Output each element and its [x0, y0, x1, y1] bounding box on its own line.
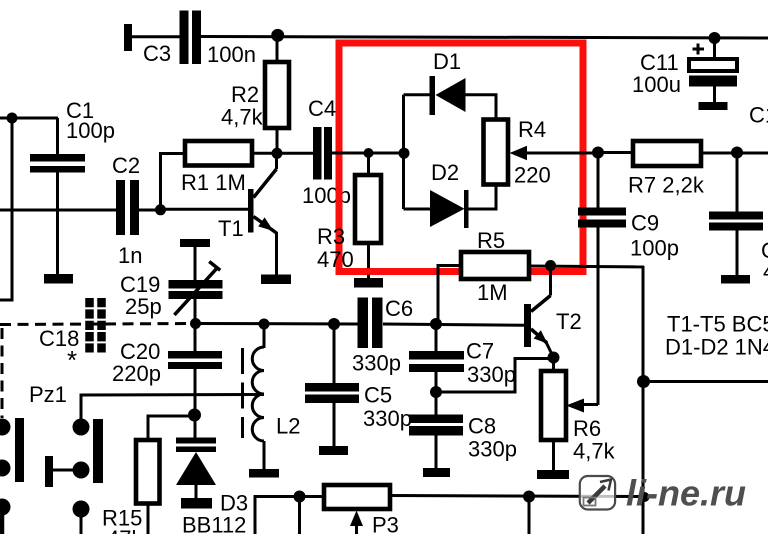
svg-text:li-ne.ru: li-ne.ru: [626, 473, 746, 514]
svg-text:T1: T1: [218, 216, 244, 241]
svg-text:C12: C12: [749, 103, 768, 128]
svg-text:100n: 100n: [207, 42, 256, 67]
svg-text:1M: 1M: [477, 280, 508, 305]
svg-text:470: 470: [317, 247, 354, 272]
svg-text:330p: 330p: [352, 351, 401, 376]
svg-text:C3: C3: [143, 41, 171, 66]
svg-text:C2: C2: [112, 153, 140, 178]
svg-text:C6: C6: [385, 296, 413, 321]
svg-text:*: *: [67, 345, 77, 375]
svg-text:R6: R6: [573, 416, 601, 441]
svg-text:4,7k: 4,7k: [221, 105, 264, 130]
svg-text:L2: L2: [276, 414, 300, 439]
svg-text:R4: R4: [518, 117, 546, 142]
svg-text:100p: 100p: [66, 118, 115, 143]
svg-text:100p: 100p: [630, 236, 679, 261]
svg-text:C7: C7: [466, 339, 494, 364]
svg-text:100u: 100u: [632, 72, 681, 97]
svg-text:47k: 47k: [107, 526, 143, 534]
svg-text:BB112: BB112: [182, 513, 246, 534]
svg-text:R3: R3: [317, 224, 345, 249]
svg-text:R5: R5: [477, 228, 505, 253]
svg-text:D2: D2: [431, 160, 459, 185]
svg-text:47p: 47p: [763, 259, 768, 284]
svg-text:C4: C4: [308, 96, 336, 121]
svg-text:330p: 330p: [468, 437, 517, 462]
svg-text:R2: R2: [231, 82, 259, 107]
svg-text:4,7k: 4,7k: [573, 439, 616, 464]
svg-text:Pz1: Pz1: [29, 382, 67, 407]
svg-text:C5: C5: [364, 383, 392, 408]
svg-text:D1-D2 1N4148: D1-D2 1N4148: [665, 335, 768, 360]
svg-text:R1 1M: R1 1M: [181, 170, 246, 195]
svg-text:100p: 100p: [302, 183, 351, 208]
svg-text:220: 220: [514, 163, 551, 188]
svg-text:330p: 330p: [467, 362, 516, 387]
svg-text:330p: 330p: [363, 406, 412, 431]
svg-text:P3: P3: [372, 513, 399, 534]
svg-text:C9: C9: [631, 211, 659, 236]
svg-text:T1-T5 BC546: T1-T5 BC546: [667, 312, 768, 337]
svg-text:220p: 220p: [112, 361, 161, 386]
svg-text:D1: D1: [433, 49, 461, 74]
svg-text:T2: T2: [556, 309, 582, 334]
svg-text:R7 2,2k: R7 2,2k: [628, 173, 705, 198]
svg-text:C8: C8: [468, 414, 496, 439]
svg-text:1n: 1n: [118, 243, 142, 268]
svg-text:25p: 25p: [125, 294, 162, 319]
